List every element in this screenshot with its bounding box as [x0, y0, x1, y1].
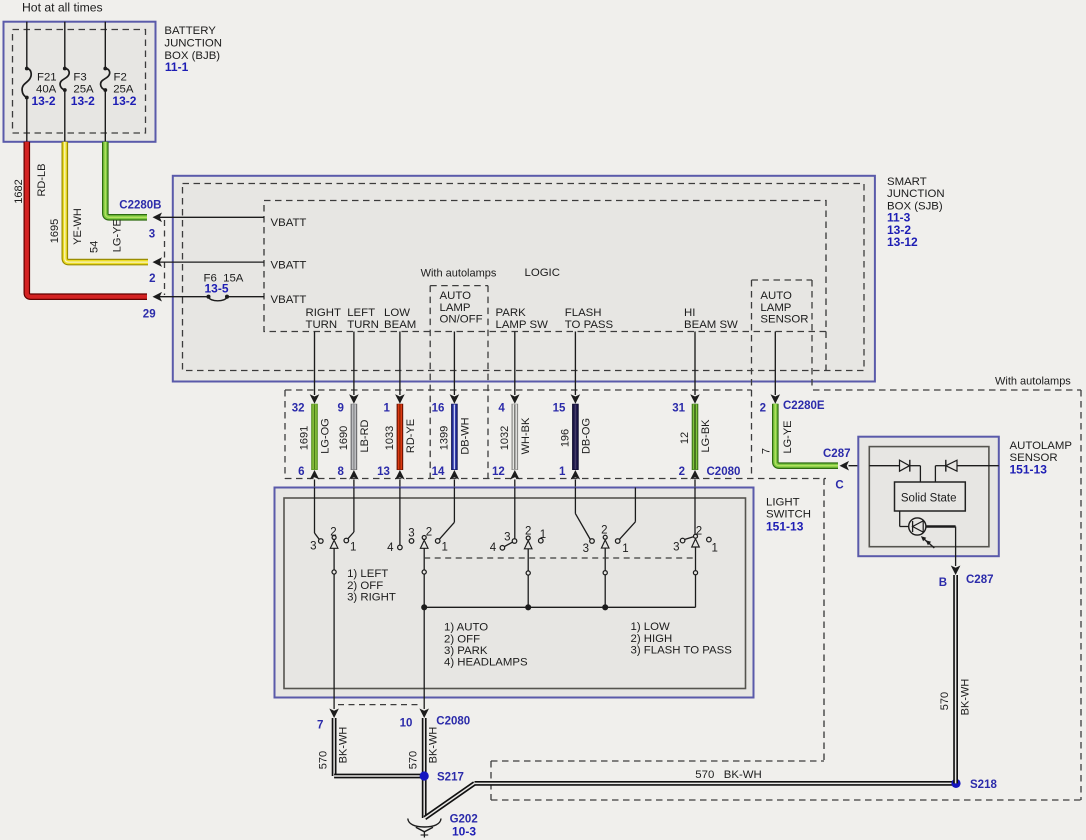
svg-text:4: 4	[490, 542, 497, 554]
svg-text:10-3: 10-3	[452, 825, 476, 839]
svg-text:1) LOW: 1) LOW	[631, 621, 670, 633]
svg-text:2: 2	[525, 525, 531, 537]
svg-text:570 BK-WH: 570 BK-WH	[695, 769, 761, 781]
svg-text:1: 1	[622, 543, 628, 555]
svg-text:BK-WH: BK-WH	[960, 679, 972, 716]
svg-text:Solid State: Solid State	[901, 493, 957, 505]
svg-text:RIGHT: RIGHT	[306, 307, 341, 319]
svg-text:S218: S218	[970, 779, 997, 791]
svg-text:1691: 1691	[299, 426, 311, 450]
svg-text:TURN: TURN	[306, 319, 338, 331]
svg-text:6: 6	[298, 466, 304, 478]
svg-text:1: 1	[712, 543, 718, 555]
svg-text:1032: 1032	[499, 426, 511, 450]
svg-text:BATTERY: BATTERY	[164, 25, 216, 37]
svg-text:BEAM: BEAM	[384, 319, 416, 331]
svg-text:AUTOLAMP: AUTOLAMP	[1010, 440, 1072, 452]
svg-text:VBATT: VBATT	[271, 217, 307, 229]
svg-text:12: 12	[492, 466, 505, 478]
svg-text:LAMP: LAMP	[440, 302, 471, 314]
svg-text:LAMP SW: LAMP SW	[496, 319, 549, 331]
svg-text:RD-LB: RD-LB	[36, 163, 48, 196]
svg-text:JUNCTION: JUNCTION	[887, 188, 945, 200]
svg-text:FLASH: FLASH	[565, 307, 602, 319]
svg-text:LOGIC: LOGIC	[525, 267, 560, 279]
svg-text:1033: 1033	[384, 426, 396, 450]
svg-text:15: 15	[553, 403, 566, 415]
svg-text:13-5: 13-5	[205, 282, 229, 296]
svg-text:C2280E: C2280E	[783, 400, 825, 412]
svg-text:C287: C287	[966, 574, 994, 586]
svg-text:2) OFF: 2) OFF	[444, 633, 480, 645]
svg-text:1: 1	[383, 403, 390, 415]
svg-text:3) RIGHT: 3) RIGHT	[347, 592, 396, 604]
svg-text:4: 4	[387, 542, 394, 554]
svg-text:TO PASS: TO PASS	[565, 319, 614, 331]
svg-text:WH-BK: WH-BK	[520, 417, 532, 454]
svg-text:13-2: 13-2	[32, 94, 56, 108]
svg-text:10: 10	[400, 718, 413, 730]
svg-text:JUNCTION: JUNCTION	[164, 37, 222, 49]
svg-text:BEAM SW: BEAM SW	[684, 319, 738, 331]
svg-text:1) LEFT: 1) LEFT	[347, 568, 388, 580]
svg-text:With autolamps: With autolamps	[421, 268, 497, 280]
svg-text:151-13: 151-13	[766, 520, 804, 534]
svg-text:LG-YE: LG-YE	[112, 219, 124, 252]
svg-text:C2080: C2080	[707, 466, 741, 478]
svg-text:11-1: 11-1	[165, 60, 189, 74]
svg-text:C2080: C2080	[436, 716, 470, 728]
svg-text:VBATT: VBATT	[271, 294, 307, 306]
svg-text:LB-RD: LB-RD	[359, 419, 371, 452]
svg-text:With autolamps: With autolamps	[995, 376, 1071, 388]
svg-text:S217: S217	[437, 772, 464, 784]
svg-text:13-2: 13-2	[112, 94, 136, 108]
svg-text:BK-WH: BK-WH	[338, 727, 350, 764]
svg-text:2: 2	[601, 524, 607, 536]
svg-text:C2280B: C2280B	[119, 200, 161, 212]
svg-text:32: 32	[292, 403, 305, 415]
svg-text:1) AUTO: 1) AUTO	[444, 622, 488, 634]
svg-text:31: 31	[672, 403, 685, 415]
svg-text:2: 2	[679, 466, 685, 478]
svg-text:7: 7	[761, 448, 773, 454]
svg-text:HI: HI	[684, 307, 695, 319]
svg-text:1: 1	[540, 529, 546, 541]
svg-text:DB-OG: DB-OG	[581, 418, 593, 454]
svg-text:12: 12	[679, 432, 691, 444]
svg-text:F2: F2	[114, 72, 127, 84]
svg-text:PARK: PARK	[496, 307, 527, 319]
svg-text:570: 570	[939, 692, 951, 710]
svg-text:29: 29	[143, 309, 156, 321]
svg-text:LG-BK: LG-BK	[700, 419, 712, 453]
svg-text:4) HEADLAMPS: 4) HEADLAMPS	[444, 657, 528, 669]
svg-text:570: 570	[408, 751, 420, 769]
svg-text:LEFT: LEFT	[347, 307, 375, 319]
svg-text:C: C	[835, 480, 843, 492]
svg-text:LIGHT: LIGHT	[766, 497, 800, 509]
svg-text:3: 3	[408, 528, 414, 540]
svg-text:1: 1	[442, 542, 448, 554]
svg-text:151-13: 151-13	[1010, 463, 1048, 477]
svg-text:13-2: 13-2	[71, 94, 95, 108]
svg-text:C287: C287	[823, 448, 851, 460]
svg-text:13: 13	[377, 466, 390, 478]
svg-text:3) FLASH TO PASS: 3) FLASH TO PASS	[631, 645, 733, 657]
svg-text:3: 3	[310, 541, 316, 553]
svg-text:VBATT: VBATT	[271, 260, 307, 272]
svg-text:1690: 1690	[338, 426, 350, 450]
svg-text:BK-WH: BK-WH	[428, 727, 440, 764]
svg-text:LOW: LOW	[384, 307, 410, 319]
svg-text:16: 16	[432, 403, 445, 415]
svg-text:3: 3	[504, 532, 510, 544]
svg-text:1695: 1695	[49, 219, 61, 243]
svg-text:2: 2	[760, 403, 766, 415]
svg-text:LG-YE: LG-YE	[782, 420, 794, 453]
svg-text:2: 2	[426, 526, 432, 538]
svg-text:2: 2	[149, 273, 155, 285]
svg-text:1682: 1682	[13, 179, 25, 203]
svg-text:2: 2	[330, 527, 336, 539]
svg-text:TURN: TURN	[347, 319, 379, 331]
svg-text:SMART: SMART	[887, 176, 927, 188]
svg-text:YE-WH: YE-WH	[72, 208, 84, 245]
svg-text:Hot at all times: Hot at all times	[22, 1, 103, 15]
svg-text:DB-WH: DB-WH	[460, 417, 472, 454]
svg-text:196: 196	[559, 429, 571, 447]
svg-text:LG-OG: LG-OG	[320, 418, 332, 453]
svg-text:4: 4	[498, 403, 505, 415]
svg-text:2) HIGH: 2) HIGH	[631, 633, 673, 645]
svg-text:RD-YE: RD-YE	[405, 419, 417, 453]
svg-text:2) OFF: 2) OFF	[347, 580, 383, 592]
svg-text:3) PARK: 3) PARK	[444, 645, 488, 657]
svg-text:F3: F3	[73, 72, 86, 84]
svg-text:13-12: 13-12	[887, 235, 918, 249]
svg-text:8: 8	[337, 466, 344, 478]
svg-text:570: 570	[318, 751, 330, 769]
svg-text:9: 9	[337, 403, 343, 415]
svg-text:54: 54	[89, 241, 101, 253]
svg-text:LAMP: LAMP	[760, 302, 791, 314]
svg-text:B: B	[939, 577, 947, 589]
svg-text:14: 14	[432, 466, 445, 478]
svg-text:3: 3	[673, 542, 679, 554]
svg-text:ON/OFF: ON/OFF	[440, 314, 483, 326]
svg-text:2: 2	[696, 526, 702, 538]
svg-text:1: 1	[559, 466, 566, 478]
svg-text:3: 3	[149, 229, 155, 241]
svg-text:AUTO: AUTO	[440, 290, 472, 302]
svg-text:AUTO: AUTO	[760, 290, 792, 302]
svg-text:7: 7	[317, 720, 323, 732]
svg-text:SENSOR: SENSOR	[760, 314, 808, 326]
svg-text:3: 3	[583, 543, 589, 555]
svg-text:1399: 1399	[438, 426, 450, 450]
svg-text:1: 1	[350, 542, 356, 554]
svg-text:F21: F21	[37, 72, 57, 84]
